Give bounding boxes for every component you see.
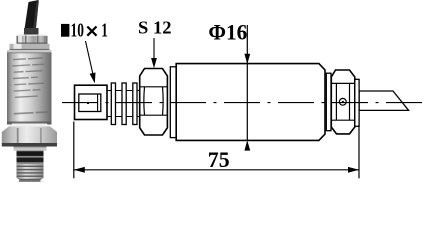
svg-text:1: 1 [101, 20, 108, 42]
cable (drawing) [359, 91, 408, 110]
svg-text:S 12: S 12 [138, 18, 172, 38]
cable (photo) [25, 1, 39, 35]
gland screw circle [339, 98, 346, 105]
hex nut (photo) [2, 124, 57, 147]
svg-text:75: 75 [208, 147, 230, 172]
phi16 bottom arrowhead [244, 140, 250, 150]
thread ring 3 [133, 83, 137, 125]
etched label text lines (photo) [11, 57, 49, 114]
S12 arrowhead [151, 58, 157, 68]
svg-text:Φ16: Φ16 [208, 20, 247, 45]
hex nut S12 [140, 69, 168, 136]
dimension 75 line [74, 169, 359, 171]
cable gland nut (photo) [10, 28, 50, 50]
flange ring between nut and body [170, 67, 176, 138]
port center mark [87, 102, 89, 104]
port inner square [79, 94, 101, 112]
M10x1 arrowhead [90, 73, 96, 84]
leader line S12 [153, 38, 155, 60]
centerline [62, 102, 425, 104]
dimension 75 extension line right [358, 125, 360, 179]
body shoulder (photo) [10, 44, 50, 51]
label M10x1 [61, 24, 69, 37]
75 right arrowhead [348, 167, 359, 173]
svg-text:10: 10 [71, 20, 84, 42]
rear flange ring [326, 73, 331, 131]
pressure port block M10x1 [75, 85, 108, 119]
main body cylinder phi16 [176, 64, 325, 141]
dimension phi16 vertical line [246, 25, 248, 140]
thread ring 1 [111, 83, 115, 125]
leader line M10x1 [86, 41, 94, 75]
dimension 75 extension line left [73, 122, 75, 179]
shaft thread root lines [106, 90, 141, 92]
sensor body cylinder (photo) [7, 50, 52, 125]
rear washer [355, 79, 359, 126]
cable gland hex [331, 70, 355, 134]
phi16 top arrowhead [244, 54, 250, 64]
collar and o-ring groove (photo) [14, 147, 47, 165]
port inner step line [97, 94, 99, 112]
thread ring 2 [122, 83, 126, 125]
75 left arrowhead [74, 167, 85, 173]
threaded stud (photo) [17, 164, 44, 182]
